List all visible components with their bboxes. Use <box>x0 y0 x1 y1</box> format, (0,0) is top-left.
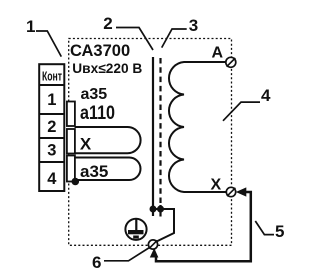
arrow pointing up to terminal 6 <box>150 248 159 258</box>
connector header label Конт <box>42 70 63 84</box>
junction dot on screen <box>150 206 157 213</box>
svg-text:3: 3 <box>189 16 198 35</box>
connector table "Конт" <box>39 64 64 191</box>
callout 6 <box>92 248 150 271</box>
secondary winding (А-X) <box>169 62 226 192</box>
pin contact stub (pins 2-3) <box>67 129 75 154</box>
junction dot at pin 4 <box>72 178 80 186</box>
magnetic core line end stub <box>159 205 161 217</box>
dashed enclosure border (transformer body outline) <box>69 39 232 246</box>
svg-text:Х: Х <box>80 134 92 153</box>
svg-text:6: 6 <box>92 253 101 271</box>
magnetic core (dashed line) <box>159 58 161 216</box>
primary winding loop section а35 (pins 3-4) <box>75 158 141 181</box>
terminal X <box>226 187 235 196</box>
svg-text:а35: а35 <box>81 86 108 103</box>
electrostatic screen (solid line) <box>152 57 154 216</box>
svg-text:5: 5 <box>275 222 284 241</box>
svg-text:Х: Х <box>211 177 222 194</box>
svg-text:А: А <box>212 45 224 62</box>
svg-text:4: 4 <box>261 86 271 105</box>
callout 4 <box>223 86 271 121</box>
callout 5 <box>255 221 284 241</box>
svg-text:Конт: Конт <box>42 70 63 84</box>
svg-text:1: 1 <box>47 91 56 109</box>
callout 2 <box>103 14 153 50</box>
callout 1 <box>26 17 61 57</box>
pin contact stub (pins 3-4) <box>67 156 75 182</box>
junction dot on core <box>157 206 164 213</box>
svg-text:2: 2 <box>47 118 56 136</box>
svg-text:1: 1 <box>26 17 35 36</box>
svg-text:СА3700: СА3700 <box>70 42 130 60</box>
svg-text:3: 3 <box>47 142 56 160</box>
wire from X terminal to bottom run <box>156 192 251 261</box>
callout 3 <box>162 16 199 48</box>
primary winding loop section x (pins 2-3) <box>75 127 141 153</box>
pin contact stub (pins 1-2) <box>67 102 75 127</box>
svg-text:Uвх≤220 В: Uвх≤220 В <box>72 61 142 76</box>
terminal 6 (ground terminal on border) <box>148 240 157 249</box>
protective earth symbol <box>125 219 146 240</box>
svg-text:а110: а110 <box>80 102 115 124</box>
svg-text:а35: а35 <box>80 162 108 181</box>
grounding wire from screen/core to terminal 6 <box>153 209 174 242</box>
terminal А <box>226 57 236 67</box>
arrow pointing to terminal X <box>236 187 247 196</box>
wire label а110 (tap) <box>80 102 115 124</box>
svg-text:2: 2 <box>103 14 112 33</box>
svg-text:4: 4 <box>47 170 57 188</box>
